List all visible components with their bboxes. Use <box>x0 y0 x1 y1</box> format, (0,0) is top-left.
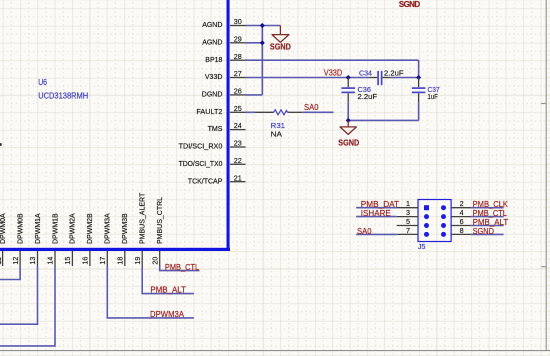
svg-text:11: 11 <box>0 257 3 264</box>
svg-text:4: 4 <box>460 208 464 217</box>
wire PMB_CLK <box>471 207 504 209</box>
J5 pin 6 <box>441 217 471 228</box>
svg-text:17: 17 <box>98 257 107 265</box>
wire C36 bottom <box>347 102 349 120</box>
svg-text:30: 30 <box>234 17 242 26</box>
wire SGND (J5) <box>471 233 504 235</box>
svg-text:14: 14 <box>46 257 55 265</box>
wire C34 right to node <box>391 77 419 79</box>
sheet border bottom edge <box>0 350 550 352</box>
svg-text:PMB_CTL: PMB_CTL <box>473 209 508 218</box>
capacitor C36 <box>341 78 377 103</box>
pin 24 TMS <box>208 121 246 133</box>
svg-text:DPWM3A: DPWM3A <box>150 310 185 319</box>
svg-text:PMBUS_ALERT: PMBUS_ALERT <box>140 192 147 244</box>
wire bottom rail <box>348 119 418 121</box>
J5 pin 4 <box>441 208 471 219</box>
svg-text:24: 24 <box>234 121 242 130</box>
svg-text:1uF: 1uF <box>428 92 439 101</box>
pin 12 DPWM0B <box>11 213 25 266</box>
wire V33D rail <box>246 77 370 79</box>
svg-text:DPWM1A: DPWM1A <box>35 213 42 244</box>
pin 27 V33D <box>205 69 246 81</box>
pin 28 BP18 <box>205 52 245 64</box>
pin 26 DGND <box>202 87 246 99</box>
svg-text:13: 13 <box>28 257 37 265</box>
pin 19 PMBUS_ALERT <box>133 192 147 266</box>
svg-text:SGND: SGND <box>473 227 495 236</box>
junction at BP18/C37 node <box>416 75 421 80</box>
junction at pin29 <box>260 40 265 45</box>
svg-text:DPWM2B: DPWM2B <box>87 213 94 244</box>
svg-text:12: 12 <box>11 257 20 265</box>
wire pin14 <box>0 266 55 346</box>
junction at V33D node <box>346 75 351 80</box>
svg-text:29: 29 <box>234 34 242 43</box>
svg-text:DPWM3B: DPWM3B <box>122 213 129 244</box>
svg-text:5: 5 <box>406 217 410 226</box>
wire pin17 DPWM3A <box>107 266 194 318</box>
pin 16 DPWM2B <box>81 213 95 266</box>
svg-text:J5: J5 <box>418 242 426 251</box>
wire SA0 (J5) <box>356 233 397 235</box>
wire pin25 to R31 <box>246 111 256 113</box>
svg-text:V33D: V33D <box>205 74 223 81</box>
wire vertical AGND bus <box>261 26 263 95</box>
pin 13 DPWM1A <box>28 213 42 266</box>
svg-text:18: 18 <box>116 257 125 265</box>
IC U6 body right edge <box>227 0 230 251</box>
wire pin30 to junction <box>246 25 263 27</box>
junction at pin30 <box>260 23 265 28</box>
pin 21 TCK/TCAP <box>188 173 246 185</box>
svg-text:16: 16 <box>81 257 90 265</box>
svg-text:V33D: V33D <box>324 69 343 78</box>
svg-text:7: 7 <box>406 226 410 235</box>
svg-text:AGND: AGND <box>202 22 222 29</box>
svg-text:23: 23 <box>234 139 242 148</box>
wire R31 to SA0 <box>303 111 334 113</box>
wire ISHARE <box>356 216 397 218</box>
svg-text:DPWM3A: DPWM3A <box>105 213 112 244</box>
svg-text:PMB_ALT: PMB_ALT <box>473 218 509 227</box>
svg-text:SA0: SA0 <box>304 103 319 112</box>
pin 18 DPWM3B <box>116 213 130 266</box>
svg-text:AGND: AGND <box>202 39 222 46</box>
U6 IC body bottom edge <box>0 248 230 251</box>
pin 14 DPWM1B <box>46 213 60 266</box>
wire pin19 PMB_ALT <box>142 266 194 294</box>
J5 pin 1 <box>397 199 429 210</box>
svg-text:2.2uF: 2.2uF <box>358 92 378 101</box>
svg-text:C34: C34 <box>359 69 372 78</box>
svg-text:27: 27 <box>234 69 242 78</box>
wire BP18 rail <box>246 59 419 61</box>
cut-off object at left edge <box>0 143 2 146</box>
svg-text:20: 20 <box>150 257 159 265</box>
pin 22 TDO/SCI_TX0 <box>179 156 246 168</box>
svg-text:2: 2 <box>460 199 464 208</box>
pin 17 DPWM3A <box>98 213 112 266</box>
svg-text:PMB_ALT: PMB_ALT <box>150 286 186 295</box>
ground SGND (middle) <box>338 120 359 147</box>
ground SGND (top) <box>270 26 291 52</box>
wire PMB_CTL (J5) <box>471 216 504 218</box>
wire PMB_DAT <box>356 207 397 209</box>
svg-text:SGND: SGND <box>399 0 420 9</box>
connector J5 body <box>418 200 451 242</box>
pin 30 AGND <box>202 17 245 29</box>
J5 pin 2 <box>441 199 471 210</box>
pin 25 FAULT2 <box>196 104 245 116</box>
svg-text:U6: U6 <box>38 77 47 87</box>
svg-text:6: 6 <box>460 217 464 226</box>
svg-text:ISHARE: ISHARE <box>361 209 391 218</box>
pin 29 AGND <box>202 34 245 46</box>
svg-text:TMS: TMS <box>208 126 223 133</box>
capacitor C37 <box>412 78 440 103</box>
svg-text:SGND: SGND <box>270 43 291 52</box>
svg-text:TDO/SCI_TX0: TDO/SCI_TX0 <box>179 161 223 168</box>
wire to SGND symbol (top) <box>262 25 280 27</box>
svg-text:DPWM2A: DPWM2A <box>70 213 77 244</box>
svg-text:BP18: BP18 <box>205 57 222 64</box>
pin 23 TDI/SCI_RX0 <box>179 139 246 151</box>
wire C37 bottom <box>418 102 420 120</box>
capacitor C34 <box>359 69 404 86</box>
svg-text:PMBUS_CTRL: PMBUS_CTRL <box>157 197 164 244</box>
svg-text:NA: NA <box>271 129 282 138</box>
pin 20 PMBUS_CTRL <box>150 197 164 266</box>
svg-text:PMB_CTL: PMB_CTL <box>165 263 200 272</box>
J5 pin 7 <box>397 226 429 237</box>
svg-text:TCK/TCAP: TCK/TCAP <box>188 178 223 185</box>
wire PMB_ALT (J5) <box>471 225 504 227</box>
svg-text:SGND: SGND <box>338 139 359 148</box>
J5 pin 8 <box>441 226 471 237</box>
pin 15 DPWM2A <box>63 213 77 266</box>
wire pin26 to vertical <box>246 94 263 96</box>
J5 pin 5 <box>397 217 429 228</box>
svg-text:DPWM1B: DPWM1B <box>52 213 59 244</box>
wire pin29 to junction <box>246 42 263 44</box>
svg-text:2.2uF: 2.2uF <box>384 69 404 78</box>
wire pin12 <box>0 266 20 280</box>
svg-text:DPWM0A: DPWM0A <box>0 213 7 244</box>
svg-text:DPWM0B: DPWM0B <box>17 213 24 244</box>
svg-text:19: 19 <box>133 257 142 265</box>
svg-text:25: 25 <box>234 104 242 113</box>
svg-text:8: 8 <box>460 226 464 235</box>
sheet border right edge <box>541 0 546 351</box>
wire pin13 <box>0 266 38 324</box>
svg-text:UCD3138RMH: UCD3138RMH <box>38 90 88 100</box>
svg-text:22: 22 <box>234 156 242 165</box>
wire pin20 PMB_CTL <box>160 266 200 271</box>
svg-text:SA0: SA0 <box>357 227 372 236</box>
resistor R31 <box>255 110 303 139</box>
svg-text:PMB_CLK: PMB_CLK <box>473 200 509 209</box>
svg-text:26: 26 <box>234 87 242 96</box>
wire BP18 drop to node <box>418 60 420 77</box>
junction at bottom rail <box>346 118 351 123</box>
svg-text:21: 21 <box>234 173 242 182</box>
svg-text:15: 15 <box>63 257 72 265</box>
svg-text:1: 1 <box>406 199 410 208</box>
svg-text:3: 3 <box>406 208 410 217</box>
pin 11 DPWM0A <box>0 213 7 266</box>
svg-text:28: 28 <box>234 52 242 61</box>
svg-text:DGND: DGND <box>202 92 223 99</box>
svg-text:PMB_DAT: PMB_DAT <box>361 200 399 209</box>
svg-text:TDI/SCI_RX0: TDI/SCI_RX0 <box>179 144 223 151</box>
svg-text:FAULT2: FAULT2 <box>196 109 222 116</box>
J5 pin 3 <box>397 208 429 219</box>
